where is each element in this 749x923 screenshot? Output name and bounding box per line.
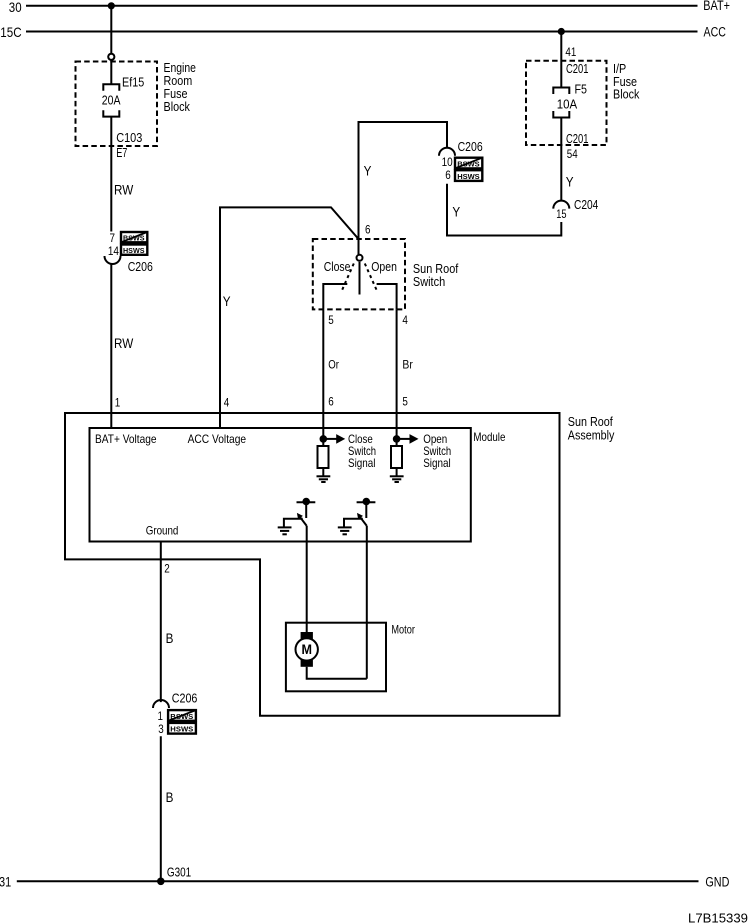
- wire: Q1 output down to motor: [306, 526, 308, 633]
- svg-text:B: B: [166, 789, 174, 805]
- transistor switch Q2 (open drive): [344, 498, 375, 527]
- svg-text:41: 41: [565, 45, 576, 59]
- node: junction dot open signal: [393, 435, 401, 443]
- svg-text:4: 4: [402, 313, 408, 327]
- svg-text:6: 6: [328, 395, 334, 409]
- wire: C206 pin 3 down to ground G301: [160, 736, 162, 881]
- Module inner box: [90, 428, 471, 542]
- svg-text:6: 6: [445, 168, 451, 182]
- label: Open Switch Signal: [423, 432, 451, 470]
- svg-text:Close: Close: [324, 260, 351, 274]
- switch blade dashed (close side): [341, 264, 354, 293]
- svg-text:30: 30: [9, 0, 22, 15]
- option box BSWS (struck): [168, 710, 196, 721]
- svg-text:Y: Y: [223, 293, 231, 309]
- svg-text:1: 1: [115, 396, 121, 410]
- svg-text:6: 6: [365, 223, 371, 237]
- node: junction dot G301 on bus 31: [157, 878, 165, 886]
- bus 15C (ACC): [0, 24, 726, 40]
- wire: module pin 5 internal: [396, 428, 398, 446]
- Sun Roof Switch dashed box: [313, 239, 405, 309]
- svg-text:F5: F5: [575, 82, 588, 96]
- svg-text:Y: Y: [566, 174, 574, 190]
- svg-text:15: 15: [556, 207, 567, 221]
- switch common open circle: [357, 255, 363, 261]
- svg-text:Signal: Signal: [423, 456, 451, 470]
- ground (Q1): [278, 527, 292, 534]
- svg-text:C206: C206: [458, 140, 483, 154]
- svg-text:20A: 20A: [102, 94, 121, 108]
- svg-text:5: 5: [328, 313, 334, 327]
- svg-text:2: 2: [164, 562, 170, 576]
- svg-text:B: B: [166, 630, 174, 646]
- svg-text:M: M: [301, 642, 312, 657]
- svg-text:Br: Br: [402, 358, 412, 372]
- svg-text:15C: 15C: [0, 24, 21, 40]
- svg-text:HSWS: HSWS: [123, 246, 145, 255]
- switch close contact: [323, 284, 347, 309]
- wire: motor return loop: [307, 667, 367, 679]
- svg-text:10A: 10A: [557, 97, 578, 111]
- wire: fuse to connector C206 pin 7: [110, 117, 112, 232]
- I/P Fuse Block dashed box: [526, 61, 607, 145]
- wire: R1 to ground: [322, 468, 324, 476]
- wire: module pin 2 ground lead: [160, 542, 162, 703]
- connector C206 pins 10/6: [439, 140, 483, 182]
- resistor R1 (close pull-down): [318, 446, 329, 468]
- motor M1: [296, 632, 318, 667]
- bus 31 (GND): [0, 874, 730, 890]
- wire: R2 to ground: [396, 468, 398, 476]
- switch common pole: [359, 262, 361, 295]
- transistor switch Q1 (close drive): [284, 498, 315, 527]
- svg-text:Open: Open: [371, 260, 397, 274]
- node: junction dot on bus 30: [108, 2, 115, 9]
- fuse F5 10A: [553, 88, 569, 118]
- Engine Room Fuse Block dashed box: [76, 62, 158, 147]
- svg-text:Or: Or: [328, 358, 339, 372]
- svg-text:14: 14: [108, 244, 119, 258]
- wire: switch pin 5 to module pin 6: [322, 309, 324, 428]
- wire: module pin 6 internal: [322, 428, 324, 446]
- wire: C206 to module pin 1: [110, 264, 112, 428]
- fuse Ef15 20A: [103, 84, 119, 116]
- svg-text:Block: Block: [613, 87, 640, 102]
- bus 30 (BAT+): [9, 0, 730, 15]
- svg-text:Ground: Ground: [146, 524, 179, 538]
- wire: module pin 4 up and diagonal to switch node 6: [220, 207, 359, 428]
- svg-text:C206: C206: [172, 692, 198, 706]
- svg-text:Y: Y: [364, 163, 372, 179]
- ground (R1): [317, 476, 331, 482]
- svg-text:1: 1: [158, 709, 164, 723]
- svg-text:Ef15: Ef15: [122, 76, 144, 90]
- svg-text:4: 4: [224, 396, 230, 410]
- svg-text:5: 5: [402, 395, 408, 409]
- svg-text:C103: C103: [116, 131, 142, 145]
- option box HSWS: [455, 170, 482, 181]
- ground (R2): [390, 476, 404, 482]
- option box HSWS: [121, 245, 147, 256]
- svg-text:BAT+: BAT+: [703, 0, 730, 13]
- wire: Q2 output down to motor return: [366, 526, 368, 679]
- svg-text:10: 10: [442, 155, 453, 169]
- wire: fuse F5 to connector C204: [560, 118, 562, 201]
- svg-text:3: 3: [158, 722, 164, 736]
- svg-text:Block: Block: [164, 99, 191, 114]
- resistor R2 (open pull-down): [391, 446, 402, 468]
- wire: switch pin 4 to module pin 5: [396, 309, 398, 428]
- svg-text:HSWS: HSWS: [457, 172, 480, 181]
- svg-text:C201: C201: [566, 62, 589, 76]
- svg-text:Y: Y: [452, 204, 460, 220]
- wire: ACC bus down into I/P fuse block: [560, 32, 562, 88]
- wire: C206 pin 10 up, left, down to switch node 6: [359, 122, 448, 254]
- wire: bus 30 down to fuse block: [110, 6, 112, 53]
- node: junction dot on ACC bus: [558, 28, 565, 35]
- node: junction dot close signal: [320, 435, 328, 443]
- label: Sun Roof Assembly: [568, 414, 615, 442]
- svg-text:L7B15339: L7B15339: [688, 911, 748, 923]
- svg-text:RW: RW: [114, 335, 134, 351]
- switch open contact: [377, 284, 397, 309]
- svg-text:Signal: Signal: [348, 456, 376, 470]
- svg-text:C201: C201: [566, 132, 589, 146]
- option box BSWS (struck): [455, 158, 482, 169]
- svg-text:HSWS: HSWS: [170, 725, 193, 734]
- switch blade dashed (open side): [365, 264, 378, 293]
- svg-text:RW: RW: [114, 182, 134, 198]
- label: Engine Room Fuse Block: [164, 60, 196, 114]
- svg-text:31: 31: [0, 874, 11, 890]
- option box HSWS: [168, 723, 196, 734]
- wire: circle to fuse Ef15: [110, 60, 112, 84]
- Sun Roof Assembly outer box: [65, 413, 560, 716]
- option box BSWS (struck): [121, 232, 147, 243]
- connector C204 pin 15: [553, 198, 598, 221]
- svg-text:E7: E7: [116, 146, 127, 160]
- svg-text:BAT+ Voltage: BAT+ Voltage: [95, 432, 157, 446]
- svg-text:C204: C204: [574, 198, 598, 212]
- svg-text:GND: GND: [705, 874, 729, 889]
- svg-text:ACC: ACC: [704, 24, 727, 39]
- label: Close Switch Signal: [348, 432, 376, 470]
- wire: C204 down, left and up to C206 pin 6: [447, 184, 561, 236]
- label: Sun Roof Switch: [413, 261, 459, 289]
- svg-text:Motor: Motor: [391, 622, 415, 636]
- svg-text:7: 7: [110, 231, 116, 245]
- svg-text:Switch: Switch: [413, 274, 445, 289]
- node: open circle terminal at fuse block entry: [108, 54, 114, 60]
- svg-text:ACC Voltage: ACC Voltage: [188, 432, 247, 446]
- ground (Q2): [338, 527, 352, 534]
- label: I/P Fuse Block: [613, 61, 640, 102]
- connector C206 pins 1/3: [153, 692, 197, 736]
- arrow: open switch signal: [397, 434, 419, 444]
- svg-text:C206: C206: [128, 260, 153, 274]
- svg-text:54: 54: [567, 147, 578, 161]
- Motor box: [286, 623, 386, 692]
- connector C206 pins 7/14: [105, 231, 153, 274]
- svg-text:G301: G301: [167, 866, 191, 880]
- svg-text:Module: Module: [473, 430, 505, 444]
- arrow: close switch signal: [323, 434, 345, 444]
- svg-text:Assembly: Assembly: [568, 427, 615, 442]
